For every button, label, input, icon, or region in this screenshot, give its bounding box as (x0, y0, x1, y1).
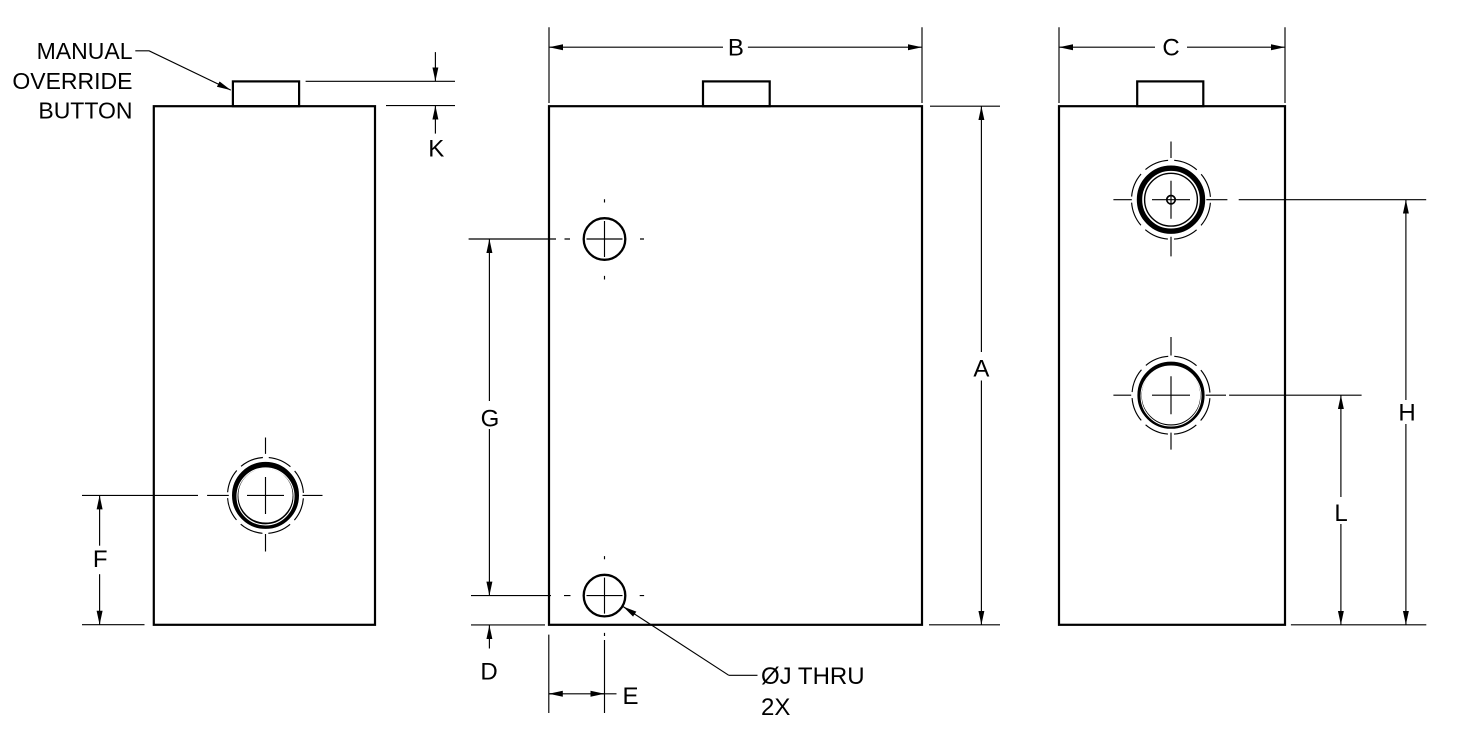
leader line to button (135, 51, 231, 90)
svg-text:C: C (1162, 35, 1179, 62)
svg-text:F: F (93, 546, 108, 573)
middle upper mounting hole (565, 199, 645, 279)
dimension G (469, 239, 556, 596)
dimension C (1059, 27, 1285, 103)
right view body (1059, 106, 1285, 625)
dimension A (929, 106, 1000, 625)
dimension K (306, 52, 455, 162)
note text MANUAL OVERRIDE BUTTON (12, 38, 132, 124)
left view manual override button (233, 81, 299, 106)
left view port centerlines (207, 438, 322, 552)
svg-text:2X: 2X (761, 694, 790, 721)
right upper port (1113, 142, 1227, 257)
dimension F (82, 495, 198, 624)
svg-text:MANUAL: MANUAL (37, 38, 133, 64)
svg-text:B: B (728, 35, 744, 62)
dimension B (549, 27, 922, 103)
svg-text:G: G (481, 405, 500, 432)
middle view button (703, 81, 770, 106)
svg-text:A: A (973, 356, 989, 383)
left view port circles (228, 457, 304, 533)
svg-text:BUTTON: BUTTON (38, 97, 132, 123)
svg-text:L: L (1334, 500, 1347, 527)
svg-text:OVERRIDE: OVERRIDE (12, 68, 132, 94)
right view button (1137, 81, 1203, 106)
dimension L (1229, 395, 1362, 625)
dimension H (1239, 200, 1427, 625)
dimension E (549, 635, 639, 713)
svg-text:ØJ THRU: ØJ THRU (761, 663, 865, 690)
middle view body (549, 106, 922, 625)
dimension D (471, 625, 545, 686)
right lower port (1113, 337, 1226, 450)
middle lower mounting hole (564, 556, 644, 636)
left view body (154, 106, 375, 625)
svg-text:E: E (623, 683, 639, 710)
leader OJ THRU 2X (623, 607, 865, 722)
svg-text:H: H (1398, 400, 1415, 427)
svg-text:D: D (480, 658, 497, 685)
svg-text:K: K (428, 136, 444, 163)
